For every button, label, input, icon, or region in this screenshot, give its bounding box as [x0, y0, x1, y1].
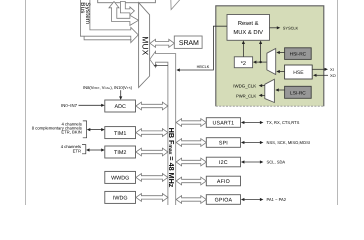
pin TIM1 channels labels — [32, 121, 87, 138]
block ADC — [105, 100, 136, 112]
block LSI-RC — [285, 86, 312, 98]
wire MUX-SRAM double arrow — [150, 39, 174, 47]
figure frame left border — [25, 0, 27, 205]
block HSE — [285, 65, 313, 79]
svg-text:MUX & DIV: MUX & DIV — [233, 29, 263, 36]
block WWDG — [105, 171, 136, 183]
svg-text:WWDG: WWDG — [111, 176, 129, 182]
mux system bus matrix trapezoid — [139, 3, 150, 88]
block TIM2 — [105, 146, 136, 158]
wire HBCLK from Reset MUX DIV to HB bus — [176, 26, 227, 71]
svg-text:IN0~IN7: IN0~IN7 — [61, 103, 77, 108]
pin IN0~IN7 label — [61, 103, 77, 108]
svg-text:TX, RX, CTS,RTS: TX, RX, CTS,RTS — [267, 120, 300, 125]
svg-text:XI: XI — [330, 67, 334, 72]
figure frame right border — [337, 0, 339, 205]
wire thin arrow bus to MUX — [154, 64, 168, 67]
wire System Bus elbow arrow — [79, 0, 138, 43]
svg-text:MUX: MUX — [141, 36, 150, 55]
wire WWDG-bus double arrow — [136, 174, 168, 182]
wire TIM2-bus double arrow — [136, 148, 168, 156]
wire TIM2 pins double arrow — [86, 148, 105, 151]
mux HSI/HSE selector trapezoid — [267, 49, 276, 75]
svg-text:USART1: USART1 — [213, 120, 235, 126]
wire GPIOA pins double arrow — [241, 197, 287, 202]
svg-text:IN8(VREF, VCAL), IN10(VTS): IN8(VREF, VCAL), IN10(VTS) — [83, 85, 133, 90]
wire IWDG_CLK output — [233, 84, 265, 89]
wire HSE to mux — [276, 70, 284, 73]
wire XO input — [313, 73, 336, 78]
wire XI output — [312, 67, 334, 72]
wire thin line under system bus arrow — [84, 36, 131, 39]
block AFIO — [206, 176, 240, 186]
wire LSI-RC to mux — [275, 88, 284, 91]
wire I2C-bus double arrow — [176, 158, 206, 166]
svg-text:HSI-RC: HSI-RC — [290, 52, 307, 58]
svg-text:SRAM: SRAM — [179, 40, 199, 47]
wire junction up to Reset MUX DIV — [259, 41, 262, 63]
wire *2 output up to Reset MUX DIV — [242, 41, 245, 57]
block HSI-RC — [285, 48, 312, 60]
block SRAM — [174, 36, 202, 48]
svg-text:ETR: ETR — [73, 148, 81, 153]
wire IWDG-bus double arrow — [136, 194, 168, 202]
svg-text:ADC: ADC — [115, 104, 126, 110]
wire ADC-bus double arrow — [136, 102, 168, 110]
svg-text:HSE: HSE — [293, 70, 304, 76]
svg-text:SCL, SDA: SCL, SDA — [267, 160, 286, 165]
block I2C — [206, 157, 240, 167]
svg-text:SYSCLK: SYSCLK — [283, 26, 299, 31]
svg-text:ETR, BKIN: ETR, BKIN — [61, 130, 81, 135]
svg-text:HB Fmax = 48 MHz: HB Fmax = 48 MHz — [167, 128, 176, 188]
mux low-speed selector trapezoid — [265, 79, 275, 102]
svg-text:I2C: I2C — [219, 160, 228, 166]
wire SPI pins double arrow — [241, 140, 310, 145]
svg-text:HBCLK: HBCLK — [197, 65, 210, 69]
wire CPU to MUX interlock stub — [120, 2, 134, 15]
wire down arrow tip from CPU box — [171, 0, 181, 10]
wire I2C pins double arrow — [241, 160, 286, 165]
block CPU core (cropped at top) — [98, 0, 156, 3]
svg-text:PWR_CLK: PWR_CLK — [236, 93, 256, 98]
wire SYSCLK output — [270, 26, 299, 31]
svg-text:SPI: SPI — [219, 140, 228, 146]
wire PWR_CLK output — [236, 93, 265, 98]
wire TIM1 pins double arrow — [87, 128, 105, 131]
svg-text:TIM2: TIM2 — [114, 150, 126, 156]
svg-text:LSI-RC: LSI-RC — [290, 90, 306, 96]
wire USART1 pins double arrow — [241, 120, 300, 125]
wire HSI-RC to mux — [276, 51, 284, 54]
svg-text:GPIOA: GPIOA — [215, 197, 233, 203]
svg-text:IWDG_CLK: IWDG_CLK — [233, 84, 256, 89]
svg-text:AFIO: AFIO — [217, 179, 230, 185]
svg-text:NSS, SCK, MISO,MOSI: NSS, SCK, MISO,MOSI — [267, 140, 310, 145]
block IWDG — [105, 191, 136, 203]
block TIM1 — [105, 127, 136, 139]
node ADC internal channels label — [83, 85, 133, 90]
block SPI — [206, 138, 240, 148]
svg-text:IWDG: IWDG — [113, 196, 128, 202]
clock block (green RCC region) — [216, 6, 324, 106]
svg-text:TIM1: TIM1 — [114, 131, 126, 137]
wire GPIOA-bus double arrow — [176, 196, 206, 204]
svg-text:PA1 ~ PA2: PA1 ~ PA2 — [267, 197, 287, 202]
svg-text:Reset &: Reset & — [238, 20, 259, 27]
wire mux output to junction and *2 — [253, 61, 267, 64]
block GPIOA — [206, 195, 240, 205]
pin TIM2 channels labels — [61, 144, 86, 154]
wire CPU-MUX double elbow arrow — [109, 2, 139, 26]
wire AFIO-bus double arrow — [176, 177, 206, 185]
svg-text:*2: *2 — [241, 61, 246, 67]
wire TIM1-bus double arrow — [136, 129, 168, 137]
wire label to ADC down arrow — [119, 90, 122, 100]
block *2 PLL — [234, 57, 252, 68]
wire IN0-IN7 to ADC — [79, 104, 105, 107]
block USART1 — [206, 118, 240, 128]
junction dot — [259, 61, 261, 63]
wire SPI-bus double arrow — [176, 139, 206, 147]
block Reset & MUX & DIV — [227, 15, 270, 41]
wire HB bus elbow arrow — [150, 51, 176, 206]
svg-text:XO: XO — [330, 73, 336, 78]
wire USART1-bus double arrow — [176, 119, 206, 127]
